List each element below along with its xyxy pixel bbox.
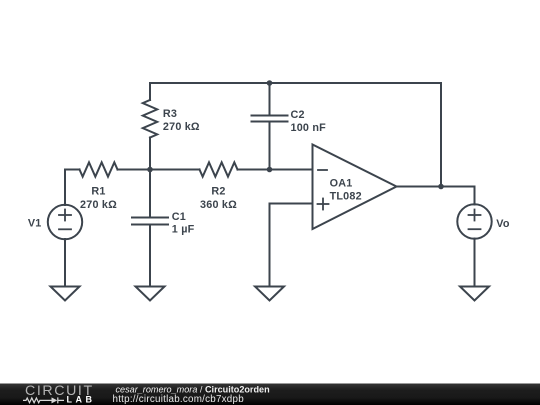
wire Vo top stub [474, 187, 476, 205]
capacitor C1 [132, 218, 168, 225]
ground for V1 [51, 287, 80, 301]
wire R1 to node A [118, 169, 151, 171]
node junction dot output [438, 184, 444, 190]
svg-text:R2: R2 [211, 185, 225, 197]
wire C2 bottom to node B [269, 122, 271, 170]
node junction dot B (R2/C2/op-amp -) [267, 167, 273, 173]
wire top from R3 to right vertical [150, 82, 441, 84]
wire node A up to R3 [149, 138, 151, 170]
resistor R1 [80, 162, 118, 176]
wire op-amp non-inverting input to ground drop [270, 204, 313, 287]
CircuitLab logo schematic line (resistor + diode) [23, 397, 64, 403]
wire R2 to node B [238, 169, 270, 171]
wire C1 bottom to ground [149, 225, 151, 287]
svg-text:LAB: LAB [66, 394, 95, 404]
wire right vertical feedback [440, 83, 442, 187]
svg-text:270 kΩ: 270 kΩ [163, 121, 200, 133]
svg-text:1 µF: 1 µF [172, 223, 195, 235]
node junction dot top (C2/top wire) [267, 80, 273, 86]
op-amp plus marker [318, 199, 329, 210]
svg-text:R3: R3 [163, 108, 177, 120]
wire V1 top stub [64, 170, 66, 206]
ground for C1 [136, 287, 165, 301]
ground for Vo [460, 287, 489, 301]
svg-text:270 kΩ: 270 kΩ [80, 199, 117, 211]
wire node A to R2 [150, 169, 200, 171]
ground for op-amp + input [255, 287, 284, 301]
wire R3 top to top wire [149, 83, 151, 100]
svg-text:Vo: Vo [496, 218, 510, 230]
svg-text:http://circuitlab.com/cb7xdpb: http://circuitlab.com/cb7xdpb [112, 394, 244, 405]
capacitor C2 [252, 116, 288, 122]
svg-text:OA1: OA1 [330, 177, 353, 189]
resistor R2 [200, 162, 238, 176]
svg-text:R1: R1 [91, 185, 105, 197]
svg-text:TL082: TL082 [330, 190, 362, 202]
svg-text:100 nF: 100 nF [291, 122, 327, 134]
node junction dot A (R1/R2/R3/C1) [147, 167, 153, 173]
wire C2 top stub [269, 83, 271, 116]
wire V1 bottom to ground [64, 239, 66, 287]
svg-text:360 kΩ: 360 kΩ [200, 199, 237, 211]
op-amp OA1 triangle [313, 145, 397, 230]
voltage source V1 [48, 205, 82, 239]
wire Vo bottom to ground [474, 239, 476, 287]
wire node A down to C1 [149, 170, 151, 218]
voltage source Vo [457, 204, 491, 238]
wire V1 to R1 [65, 169, 80, 171]
wire op-amp output to Vo [397, 186, 475, 188]
resistor R3 [143, 100, 157, 138]
svg-text:C1: C1 [172, 211, 186, 223]
op-amp minus marker [318, 169, 327, 171]
svg-text:V1: V1 [28, 218, 42, 230]
svg-text:C2: C2 [291, 109, 305, 121]
wire node B to op-amp inverting input [270, 169, 313, 171]
